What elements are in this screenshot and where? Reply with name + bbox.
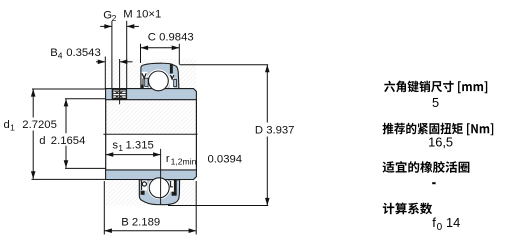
heading hex key size xyxy=(384,81,487,94)
heading calculation factor xyxy=(383,203,432,215)
outer ring top section xyxy=(141,63,179,92)
bore left edge xyxy=(105,100,107,170)
C dim xyxy=(140,44,142,63)
bore right edge xyxy=(195,100,197,170)
ball bottom xyxy=(149,178,169,198)
svg-text:1: 1 xyxy=(118,143,123,153)
svg-text:M 10×1: M 10×1 xyxy=(123,9,161,21)
axis centerline xyxy=(103,133,197,135)
grub screw M10x1 xyxy=(113,90,126,100)
shaft hatch zone xyxy=(106,59,197,206)
seal left top xyxy=(142,72,148,89)
svg-text:1,2min: 1,2min xyxy=(171,156,197,166)
G2/M dim xyxy=(111,21,113,89)
ball top xyxy=(149,71,169,91)
svg-text:4: 4 xyxy=(58,51,63,61)
s1 dim xyxy=(106,154,161,156)
heading suitable rubber ring xyxy=(383,161,470,173)
svg-text:0.0394: 0.0394 xyxy=(208,153,243,165)
heading tightening torque xyxy=(383,123,494,136)
svg-text:2: 2 xyxy=(112,13,117,23)
value dash xyxy=(432,182,435,184)
seal right bottom xyxy=(170,180,174,191)
svg-text:2.1654: 2.1654 xyxy=(51,135,86,147)
svg-text:d: d xyxy=(4,119,10,131)
svg-text:C 0.9843: C 0.9843 xyxy=(148,31,194,43)
B4 dim xyxy=(104,57,106,89)
D dim xyxy=(180,64,269,66)
svg-text:B 2.189: B 2.189 xyxy=(121,216,160,228)
svg-text:2.7205: 2.7205 xyxy=(22,119,57,131)
svg-text:14: 14 xyxy=(446,215,460,230)
svg-text:d: d xyxy=(39,135,45,147)
seal left bottom xyxy=(141,180,147,190)
bearing vertical centerline xyxy=(160,149,162,205)
svg-text:5: 5 xyxy=(432,95,439,110)
svg-text:0: 0 xyxy=(437,222,443,233)
seal right top xyxy=(170,74,174,88)
svg-text:r: r xyxy=(166,153,170,165)
svg-text:1: 1 xyxy=(10,122,15,132)
screw centerline xyxy=(119,59,121,104)
inner ring top band with collar xyxy=(106,89,197,100)
svg-text:D 3.937: D 3.937 xyxy=(255,125,295,137)
B dim xyxy=(103,181,105,235)
svg-text:1.315: 1.315 xyxy=(126,139,154,151)
d dim xyxy=(65,98,106,100)
d1 dim xyxy=(32,88,106,90)
svg-text:0.3543: 0.3543 xyxy=(66,47,101,59)
svg-text:16,5: 16,5 xyxy=(428,134,453,149)
inner ring bottom band xyxy=(106,170,197,180)
outer ring bottom section xyxy=(139,176,179,204)
svg-text:B: B xyxy=(50,47,58,59)
